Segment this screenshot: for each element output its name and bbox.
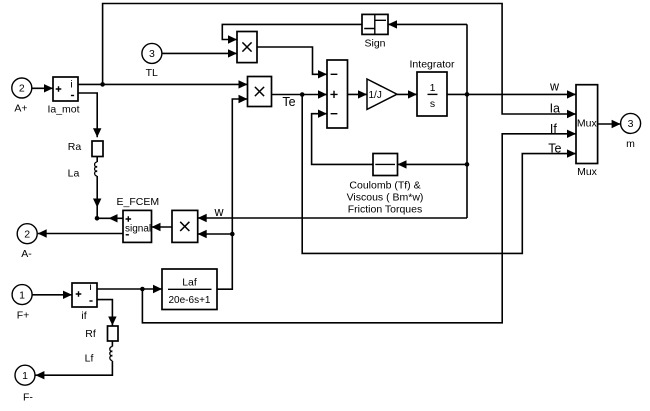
svg-text:Integrator: Integrator <box>410 59 455 71</box>
svg-text:Ia: Ia <box>550 102 560 116</box>
svg-text:1: 1 <box>19 289 25 301</box>
svg-text:Te: Te <box>282 95 295 109</box>
svg-text:TL: TL <box>146 67 158 79</box>
svg-text:E_FCEM: E_FCEM <box>117 196 160 208</box>
svg-text:1/J: 1/J <box>369 90 382 101</box>
svg-text:Friction Torques: Friction Torques <box>348 204 423 216</box>
svg-text:Ia_mot: Ia_mot <box>47 104 79 116</box>
svg-text:Ra: Ra <box>68 141 82 153</box>
svg-text:Mux: Mux <box>577 118 598 130</box>
svg-text:signal: signal <box>125 224 151 235</box>
svg-text:Te: Te <box>548 142 561 156</box>
svg-text:20e-6s+1: 20e-6s+1 <box>169 295 211 306</box>
svg-text:La: La <box>68 168 80 180</box>
svg-text:If: If <box>550 122 557 136</box>
svg-text:if: if <box>81 310 86 322</box>
svg-text:m: m <box>626 138 635 150</box>
svg-text:i: i <box>70 79 72 91</box>
svg-text:1: 1 <box>430 82 436 94</box>
svg-text:Mux: Mux <box>577 166 598 178</box>
svg-text:A-: A- <box>21 248 32 260</box>
svg-text:F+: F+ <box>17 310 30 322</box>
svg-text:Sign: Sign <box>364 38 385 50</box>
svg-text:Lf: Lf <box>85 353 94 365</box>
svg-text:Coulomb (Tf) &: Coulomb (Tf) & <box>349 180 420 192</box>
svg-text:i: i <box>89 281 91 293</box>
svg-text:A+: A+ <box>14 103 27 115</box>
svg-text:w: w <box>213 205 224 219</box>
svg-text:s: s <box>430 98 435 110</box>
svg-text:1: 1 <box>22 370 28 382</box>
svg-text:Rf: Rf <box>85 328 96 340</box>
svg-text:Laf: Laf <box>182 277 197 289</box>
svg-text:3: 3 <box>149 48 155 60</box>
svg-text:2: 2 <box>19 83 25 95</box>
svg-text:3: 3 <box>628 118 634 130</box>
svg-text:w: w <box>549 79 560 93</box>
svg-text:F-: F- <box>23 392 33 404</box>
svg-text:2: 2 <box>24 228 30 240</box>
svg-text:Viscous ( Bm*w): Viscous ( Bm*w) <box>347 192 424 204</box>
